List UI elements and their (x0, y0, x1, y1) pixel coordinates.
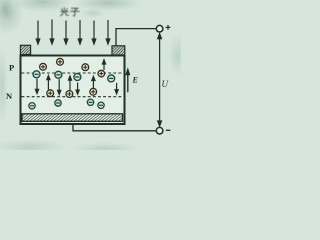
label guangzi (photons) char zi (71, 8, 79, 16)
photon arrow 2 (50, 20, 54, 45)
junction dashed line lower (22, 96, 125, 98)
hole drift arrow up 1 (47, 76, 50, 90)
label guangzi (photons) char guang (61, 8, 69, 16)
hole symbol P-region 2 (57, 58, 64, 65)
acceptor ion (minus) on junction 2 (55, 71, 62, 78)
electron drift arrow down 3 (76, 83, 79, 95)
electron symbol N-region 1 (29, 103, 35, 109)
svg-text:N: N (6, 91, 13, 101)
bottom electrode bar (hatched) (22, 114, 123, 122)
donor ion (plus) near lower junction 3 (90, 88, 97, 95)
photon arrow 3 (64, 21, 68, 45)
wire from bottom electrode to negative terminal (73, 124, 156, 131)
svg-text:E: E (132, 76, 138, 85)
acceptor ion (minus) on junction 3 (74, 74, 81, 81)
hole drift arrow in P region (102, 60, 105, 70)
voltage U indicator line (158, 34, 162, 126)
positive terminal (156, 25, 163, 32)
wire from top electrode to positive terminal (116, 29, 156, 46)
plus sign label (166, 25, 171, 30)
top electrode contact right (hatched) (112, 46, 125, 55)
electron drift arrow down 2 (58, 79, 61, 94)
hole symbol P-region 1 (40, 63, 47, 70)
electron symbol N-region 4 (98, 102, 104, 108)
svg-text:U: U (162, 79, 169, 89)
negative terminal (156, 127, 163, 134)
cell body box (21, 56, 125, 125)
hole symbol on junction line (98, 70, 105, 77)
photon arrow 1 (36, 21, 40, 45)
top electrode contact left (hatched) (20, 45, 30, 54)
built-in field E arrow (126, 70, 129, 93)
svg-text:P: P (9, 63, 14, 73)
donor ion (plus) near lower junction 1 (47, 90, 54, 97)
hole drift arrow up 2 (68, 76, 71, 91)
electron symbol N-region 3 (87, 99, 93, 105)
photon arrow 4 (78, 20, 82, 44)
hole symbol P-region 3 (82, 64, 89, 71)
minus sign label (166, 129, 171, 131)
acceptor ion (minus) on junction 1 (33, 71, 40, 78)
photon arrow 6 (106, 20, 110, 44)
junction dashed line upper (22, 72, 125, 74)
electron drift arrow down 4 (115, 83, 118, 94)
electron drift arrow down 1 (35, 79, 38, 94)
electron symbol N-region 2 (55, 100, 61, 106)
hole drift arrow up 3 (92, 76, 95, 88)
paper background (0, 0, 181, 150)
donor ion (plus) near lower junction 2 (66, 91, 73, 98)
photon arrow 5 (92, 21, 96, 45)
acceptor ion (minus) on junction 4 (108, 75, 115, 82)
